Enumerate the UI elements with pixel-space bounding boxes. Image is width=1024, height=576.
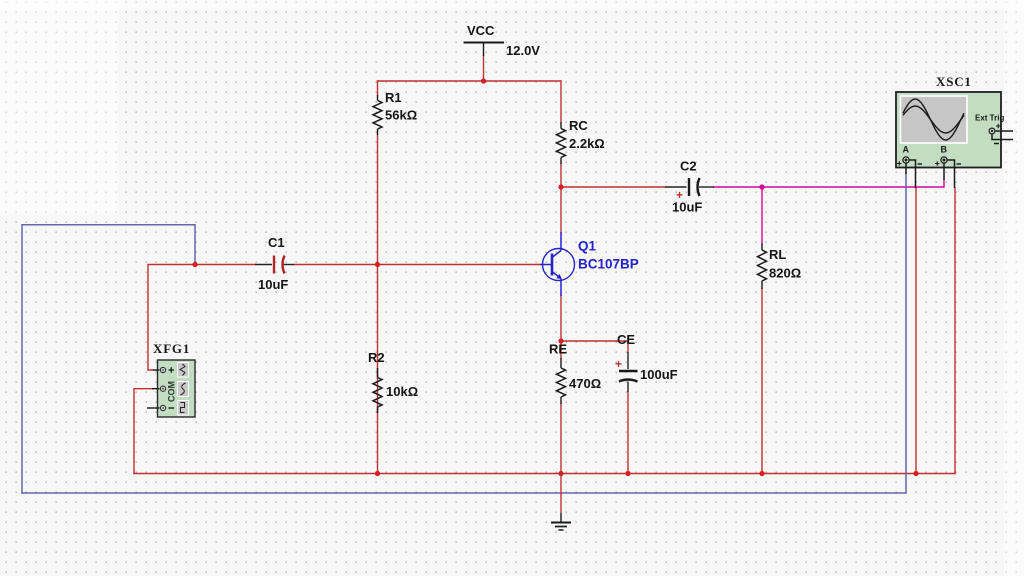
wire R1 bottom to base node to bottom bus — [377, 135, 379, 474]
wire VCC stem — [483, 56, 485, 81]
resistor RE 470 — [549, 342, 601, 405]
svg-text:A: A — [903, 145, 910, 155]
svg-text:C2: C2 — [680, 159, 697, 174]
node collector-C2 junction — [558, 184, 563, 189]
svg-text:XFG1: XFG1 — [153, 341, 190, 356]
XFG1 waveform button sine 2 — [178, 382, 189, 397]
svg-text:100uF: 100uF — [640, 367, 678, 382]
wire RE node to CE branch — [561, 341, 628, 352]
XSC1 sine trace big — [903, 99, 964, 140]
svg-text:56kΩ: 56kΩ — [385, 108, 417, 123]
wire C2 node to C2 left lead — [561, 186, 665, 188]
svg-text:RE: RE — [549, 342, 567, 357]
node bus R2 junction — [375, 471, 380, 476]
wire VCC rail top (red) — [378, 80, 562, 82]
svg-text:C1: C1 — [268, 235, 285, 250]
wire scope B minus down to bus — [954, 188, 956, 474]
node VCC rail junction — [481, 78, 486, 83]
svg-text:Q1: Q1 — [578, 239, 597, 254]
XFG1 waveform button square 3 — [178, 401, 189, 416]
wire scope A minus down to bus — [915, 188, 917, 474]
resistor RC 2.2k — [557, 118, 605, 164]
wire blue bottom bus to scope A plus — [22, 174, 906, 493]
function generator XFG1 — [147, 341, 195, 417]
capacitor C1 10uF — [255, 235, 294, 292]
svg-text:Ext Trig: Ext Trig — [975, 114, 1004, 123]
node bus ground junction — [558, 471, 563, 476]
wire CE bottom to bus — [627, 392, 629, 474]
svg-text:RC: RC — [569, 118, 588, 133]
wire input node to XFG1 plus — [148, 265, 195, 371]
wire bottom ground bus (red) — [134, 473, 955, 475]
resistor R1 56k — [373, 90, 417, 135]
wire RL bottom to bus — [761, 289, 763, 474]
node input junction — [192, 262, 197, 267]
wire emitter down to RE and bus — [560, 296, 562, 474]
node bus RL junction — [759, 471, 764, 476]
wire C1 to base — [294, 264, 540, 266]
node bus CE junction — [625, 471, 630, 476]
wire R1 top — [377, 81, 379, 95]
svg-text:10kΩ: 10kΩ — [386, 384, 418, 399]
node output magenta junction — [759, 184, 764, 189]
wire RC top — [560, 81, 562, 122]
wire C2 right to scope B plus (magenta) — [714, 180, 944, 187]
node bus scope-A junction — [913, 471, 918, 476]
power VCC symbol — [464, 23, 541, 58]
svg-text:R1: R1 — [385, 90, 402, 105]
XFG1 minus terminal — [147, 407, 160, 409]
wire output node down to RL (magenta) — [761, 187, 763, 244]
svg-text:820Ω: 820Ω — [769, 266, 801, 281]
svg-text:+: + — [676, 188, 683, 202]
svg-text:COM: COM — [167, 381, 177, 402]
XSC1 sine trace small — [903, 106, 964, 133]
node emitter-RE junction — [558, 338, 563, 343]
resistor R2 10k — [368, 265, 418, 414]
XFG1 COM terminal — [152, 388, 160, 390]
XSC1 screen — [901, 96, 968, 143]
svg-text:R2: R2 — [368, 350, 385, 365]
svg-text:CE: CE — [617, 332, 635, 347]
transistor Q1 BC107BP — [540, 232, 639, 296]
svg-text:470Ω: 470Ω — [569, 376, 601, 391]
svg-text:12.0V: 12.0V — [506, 43, 540, 58]
node base junction R1 — [375, 262, 380, 267]
svg-text:VCC: VCC — [467, 23, 495, 38]
wire XFG1 COM to bottom bus — [134, 389, 152, 474]
wire RC bottom through C2 node to collector — [560, 164, 562, 232]
XSC1 ext trig terminal — [989, 128, 995, 134]
wire base horizontal left of C1 — [195, 264, 255, 266]
svg-text:XSC1: XSC1 — [936, 74, 972, 89]
ground — [551, 474, 571, 531]
svg-text:10uF: 10uF — [258, 277, 288, 292]
oscilloscope XSC1 — [896, 74, 1013, 188]
resistor RL 820 — [758, 244, 802, 290]
wire blue input sense loop: top left — [22, 225, 195, 493]
capacitor CE 100uF — [615, 332, 678, 392]
svg-text:BC107BP: BC107BP — [578, 257, 639, 272]
svg-text:+: + — [615, 357, 622, 371]
svg-text:B: B — [941, 145, 948, 155]
capacitor C2 10uF — [665, 159, 714, 215]
XFG1 waveform button sine-ish 1 — [178, 363, 189, 378]
XFG1 plus terminal — [153, 369, 160, 371]
svg-text:RL: RL — [769, 247, 786, 262]
svg-text:2.2kΩ: 2.2kΩ — [569, 136, 605, 151]
